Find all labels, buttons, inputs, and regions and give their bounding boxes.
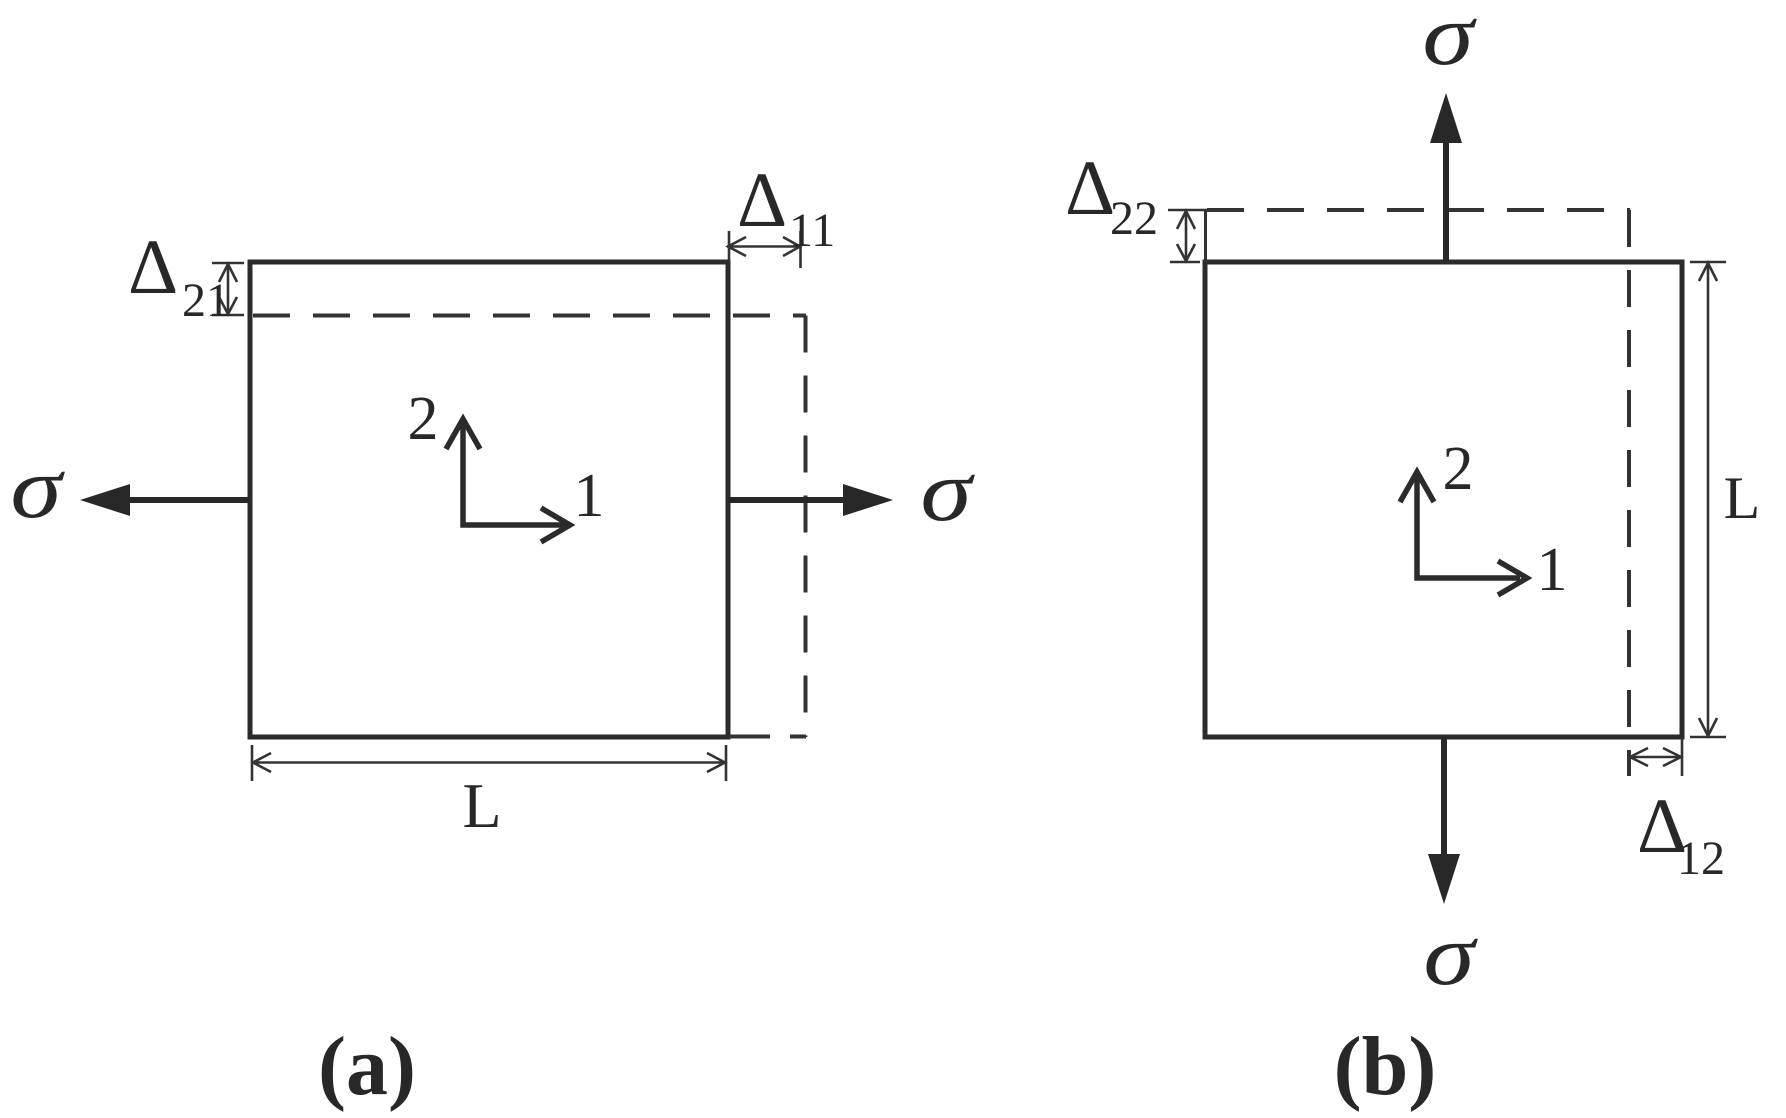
L dimension (b)	[1690, 262, 1726, 737]
axis-2 arrowhead (a)	[446, 419, 480, 449]
svg-text:1: 1	[1537, 536, 1568, 604]
axis-1 arrowhead (a)	[541, 508, 570, 542]
delta22 dimension (b)	[1168, 210, 1210, 262]
svg-text:2: 2	[1443, 435, 1474, 503]
square (a) undeformed element	[250, 262, 728, 737]
svg-text:22: 22	[1110, 192, 1158, 245]
sigma arrow left (a)	[80, 484, 250, 516]
dashed deformed outline (b) right edge	[1627, 210, 1631, 776]
delta12 dimension (b)	[1629, 737, 1682, 776]
sigma arrow bottom (b)	[1428, 737, 1460, 904]
sigma arrow top (b)	[1430, 93, 1462, 262]
axis-1 arrowhead (b)	[1498, 561, 1527, 595]
axes origin (b)	[1400, 472, 1527, 595]
axis-2 arrowhead (b)	[1400, 472, 1434, 502]
svg-text:(a): (a)	[318, 1020, 416, 1113]
dashed deformed outline (a) top edge	[253, 314, 806, 318]
svg-text:21: 21	[182, 274, 230, 327]
dashed deformed outline (a) right edge	[804, 316, 808, 738]
svg-text:12: 12	[1677, 832, 1725, 885]
svg-text:σ: σ	[1423, 905, 1478, 1003]
axes origin (a)	[446, 419, 570, 542]
svg-text:σ: σ	[920, 441, 975, 539]
deformed outline (b) left edge stub	[1204, 210, 1207, 262]
delta11 dimension (a)	[727, 231, 801, 268]
svg-text:1: 1	[574, 462, 605, 530]
L dimension (a)	[252, 745, 726, 781]
sigma arrow right (a)	[728, 484, 893, 516]
svg-text:σ: σ	[1422, 0, 1477, 83]
svg-text:Δ: Δ	[1065, 144, 1115, 231]
dashed deformed outline (a) bottom edge stub	[730, 735, 806, 739]
svg-text:L: L	[462, 770, 501, 841]
delta21 dimension (a)	[212, 263, 244, 315]
svg-text:σ: σ	[10, 438, 65, 536]
svg-text:Δ: Δ	[737, 156, 787, 243]
square (b) undeformed element	[1205, 262, 1682, 737]
svg-text:(b): (b)	[1334, 1020, 1437, 1113]
svg-text:L: L	[1724, 465, 1761, 531]
svg-text:2: 2	[408, 385, 439, 453]
dashed deformed outline (b) top edge	[1207, 208, 1630, 212]
svg-text:Δ: Δ	[128, 223, 178, 310]
svg-text:11: 11	[789, 204, 835, 257]
